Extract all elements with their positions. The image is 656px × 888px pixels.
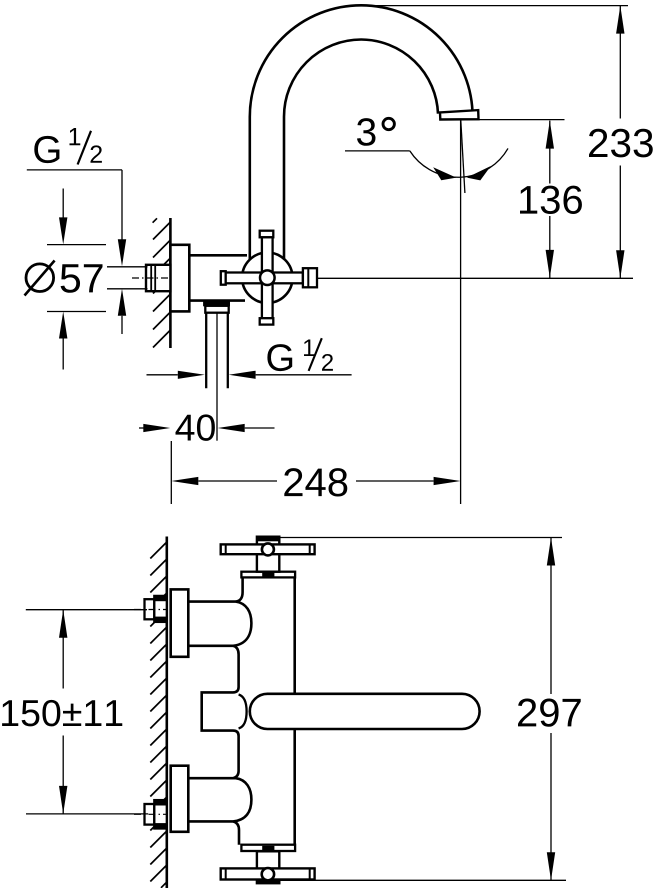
body right edge: [293, 577, 296, 844]
cross handle horizontal bar: [221, 271, 226, 285]
3-degree plumb line: [460, 121, 462, 505]
3-degree arc arrowheads: [433, 167, 456, 180]
label 2 top: [91, 145, 102, 162]
spout riser outer wall + outer arc: [250, 5, 473, 259]
dimension 136: [443, 119, 565, 121]
top handle bar: [221, 544, 315, 554]
top handle stem: [257, 537, 279, 572]
wall hatching (lower): [150, 542, 167, 888]
label 2 bot: [322, 354, 333, 371]
body left edge mid segment + block: [202, 646, 239, 778]
valve body cylinder: [189, 254, 247, 257]
wall union thread G1/2 (upper): [146, 265, 170, 291]
bottom handle stem: [257, 851, 279, 883]
label 233: [589, 129, 653, 158]
dimension 297: [550, 538, 552, 881]
bottom handle bar: [221, 868, 315, 879]
top S-union cone: [188, 602, 251, 646]
3-degree leader and arc: [345, 150, 410, 152]
outlet pipe centerline: [216, 314, 218, 441]
297 top extension line: [279, 537, 562, 539]
outlet pipe G1/2: [206, 313, 228, 389]
dimension 248: [170, 441, 172, 504]
label 1 top: [70, 128, 81, 145]
centerline in thread: [132, 277, 170, 279]
label 1 bot: [304, 339, 314, 356]
dimension 40: [139, 427, 144, 429]
valve rosette circle: [242, 253, 292, 303]
label 57: [61, 264, 103, 293]
label 3: [357, 118, 375, 146]
bottom union thread + hex: [145, 804, 155, 825]
wall (upper): [169, 218, 172, 348]
label 150: [2, 700, 122, 727]
dimension 150+-11: [26, 609, 147, 611]
outlet collar: [204, 300, 230, 306]
top extension line (233): [355, 5, 628, 7]
fraction slash (G1/2 top): [78, 131, 91, 165]
dimension dia 57: [47, 245, 106, 312]
cross handle vertical bar: [260, 231, 274, 238]
wall hatching (upper): [153, 218, 171, 347]
dimension 233: [619, 6, 621, 279]
label 297: [518, 698, 581, 726]
handle hub: [260, 270, 275, 285]
bottom S-union cone: [188, 778, 251, 821]
3-degree slant line: [461, 121, 465, 194]
body bottom cap: [241, 845, 295, 851]
axis extension line: [318, 277, 633, 279]
fraction slash (G1/2 outlet): [309, 338, 322, 371]
label 248: [284, 468, 347, 496]
aerator band at spout tip: [440, 110, 479, 119]
bottom handle screw: [262, 868, 274, 880]
wall (lower): [166, 537, 169, 888]
body left edge lower segment: [233, 821, 239, 844]
top handle screw: [262, 543, 274, 555]
spout riser inner wall + inner arc: [284, 40, 438, 259]
top union thread + hex: [145, 599, 155, 619]
bottom escutcheon (lower view): [171, 766, 189, 832]
degree mark (3 deg): [383, 118, 394, 129]
G1/2 leader (top label) + pipe dia arrows: [27, 170, 122, 240]
label G top: [34, 136, 59, 163]
mid bulge: [239, 695, 247, 729]
dimension G1/2 outlet: [147, 374, 178, 376]
wall pipe extension lines: [107, 267, 148, 289]
top escutcheon (lower view): [171, 589, 189, 656]
body left edge upper segment: [236, 577, 243, 601]
escutcheon flange (upper): [170, 245, 189, 312]
label 40: [176, 414, 215, 441]
297 bottom extension line: [280, 879, 566, 881]
diameter symbol circle (dia 57): [26, 264, 54, 292]
body top cap: [241, 572, 295, 578]
spout (plan, stadium): [250, 694, 480, 729]
label 136: [520, 186, 582, 214]
label G bot: [267, 344, 292, 371]
diameter symbol slash (dia 57): [25, 261, 55, 296]
